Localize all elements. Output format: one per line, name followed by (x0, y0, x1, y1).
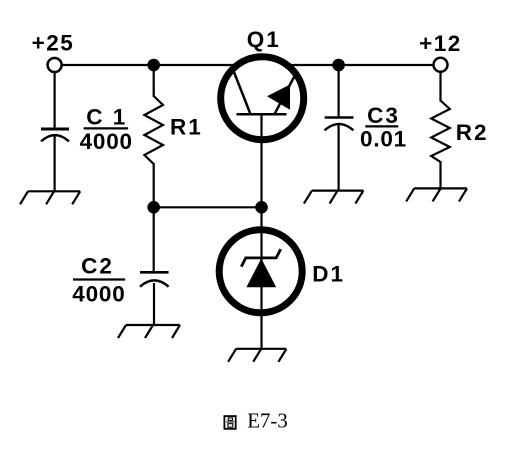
svg-text:R2: R2 (456, 120, 489, 145)
svg-text:C 1: C 1 (86, 105, 127, 130)
ground (below D1) (228, 349, 286, 362)
wire junction down to C2 (153, 207, 155, 271)
ground (below R2) (406, 188, 467, 201)
wire C2 to ground (153, 283, 155, 325)
resistor R1 (144, 96, 163, 164)
label C1 value fraction (80, 105, 133, 154)
node junction D1 top (255, 201, 268, 214)
wire junction down to C3 (338, 65, 340, 117)
wire top-right (Q1 emitter to +12) (291, 64, 433, 66)
wire +12 terminal down to R2 (439, 72, 441, 102)
wire C1 to ground (53, 136, 55, 191)
node junction R1 bottom (147, 201, 160, 214)
transistor Q1 body circle (221, 57, 304, 140)
wire Q1 base down through D1 to ground (260, 114, 262, 349)
terminal +25 (48, 58, 62, 72)
label +25 (32, 31, 75, 56)
caption text E7-3 (247, 409, 287, 432)
label Q1 (247, 27, 281, 52)
wire junction to R1 top (153, 65, 155, 97)
capacitor C3 (325, 118, 354, 131)
svg-text:D1: D1 (312, 262, 345, 287)
zener D1 cathode bar (241, 249, 280, 267)
label R1 (170, 114, 203, 139)
zener D1 anode triangle (246, 259, 276, 288)
ground (below C2) (118, 325, 180, 338)
svg-text:+12: +12 (419, 31, 462, 56)
label C2 value fraction (72, 254, 125, 307)
svg-text:4000: 4000 (80, 129, 133, 154)
svg-text:Q1: Q1 (247, 27, 281, 52)
svg-text:0.01: 0.01 (360, 127, 407, 152)
svg-text:C3: C3 (367, 103, 400, 128)
wire horizontal junction-to-junction (154, 206, 262, 208)
transistor Q1 emitter arrow (267, 85, 290, 110)
wire R2 bottom to ground (439, 161, 441, 188)
svg-text:+25: +25 (32, 31, 75, 56)
label D1 (312, 262, 345, 287)
transistor Q1 collector line (232, 67, 251, 115)
resistor R2 (431, 101, 450, 163)
wire C3 to ground (338, 125, 340, 191)
wire top-left (+25 to Q1 collector) (62, 64, 233, 66)
capacitor C1 (41, 129, 69, 141)
terminal +12 (434, 58, 448, 72)
svg-text:C2: C2 (81, 254, 114, 279)
node junction R1 top (147, 59, 160, 72)
svg-text:R1: R1 (170, 114, 203, 139)
node junction C3 top (332, 59, 345, 72)
ground (below C3) (304, 191, 364, 204)
label +12 (419, 31, 462, 56)
transistor Q1 base bar (237, 113, 287, 116)
label R2 (456, 120, 489, 145)
wire R1 bottom to junction (153, 163, 155, 207)
wire +25 terminal down to C1 (53, 72, 55, 128)
capacitor C2 (140, 272, 169, 286)
ground (below C1) (20, 191, 80, 204)
svg-text:E7-3: E7-3 (247, 409, 287, 432)
caption CJK character 圖 (drawn) (224, 416, 235, 429)
svg-text:4000: 4000 (72, 282, 125, 307)
label C3 value fraction (360, 103, 407, 152)
zener diode D1 body circle (219, 230, 302, 313)
transistor Q1 emitter line (275, 77, 295, 114)
